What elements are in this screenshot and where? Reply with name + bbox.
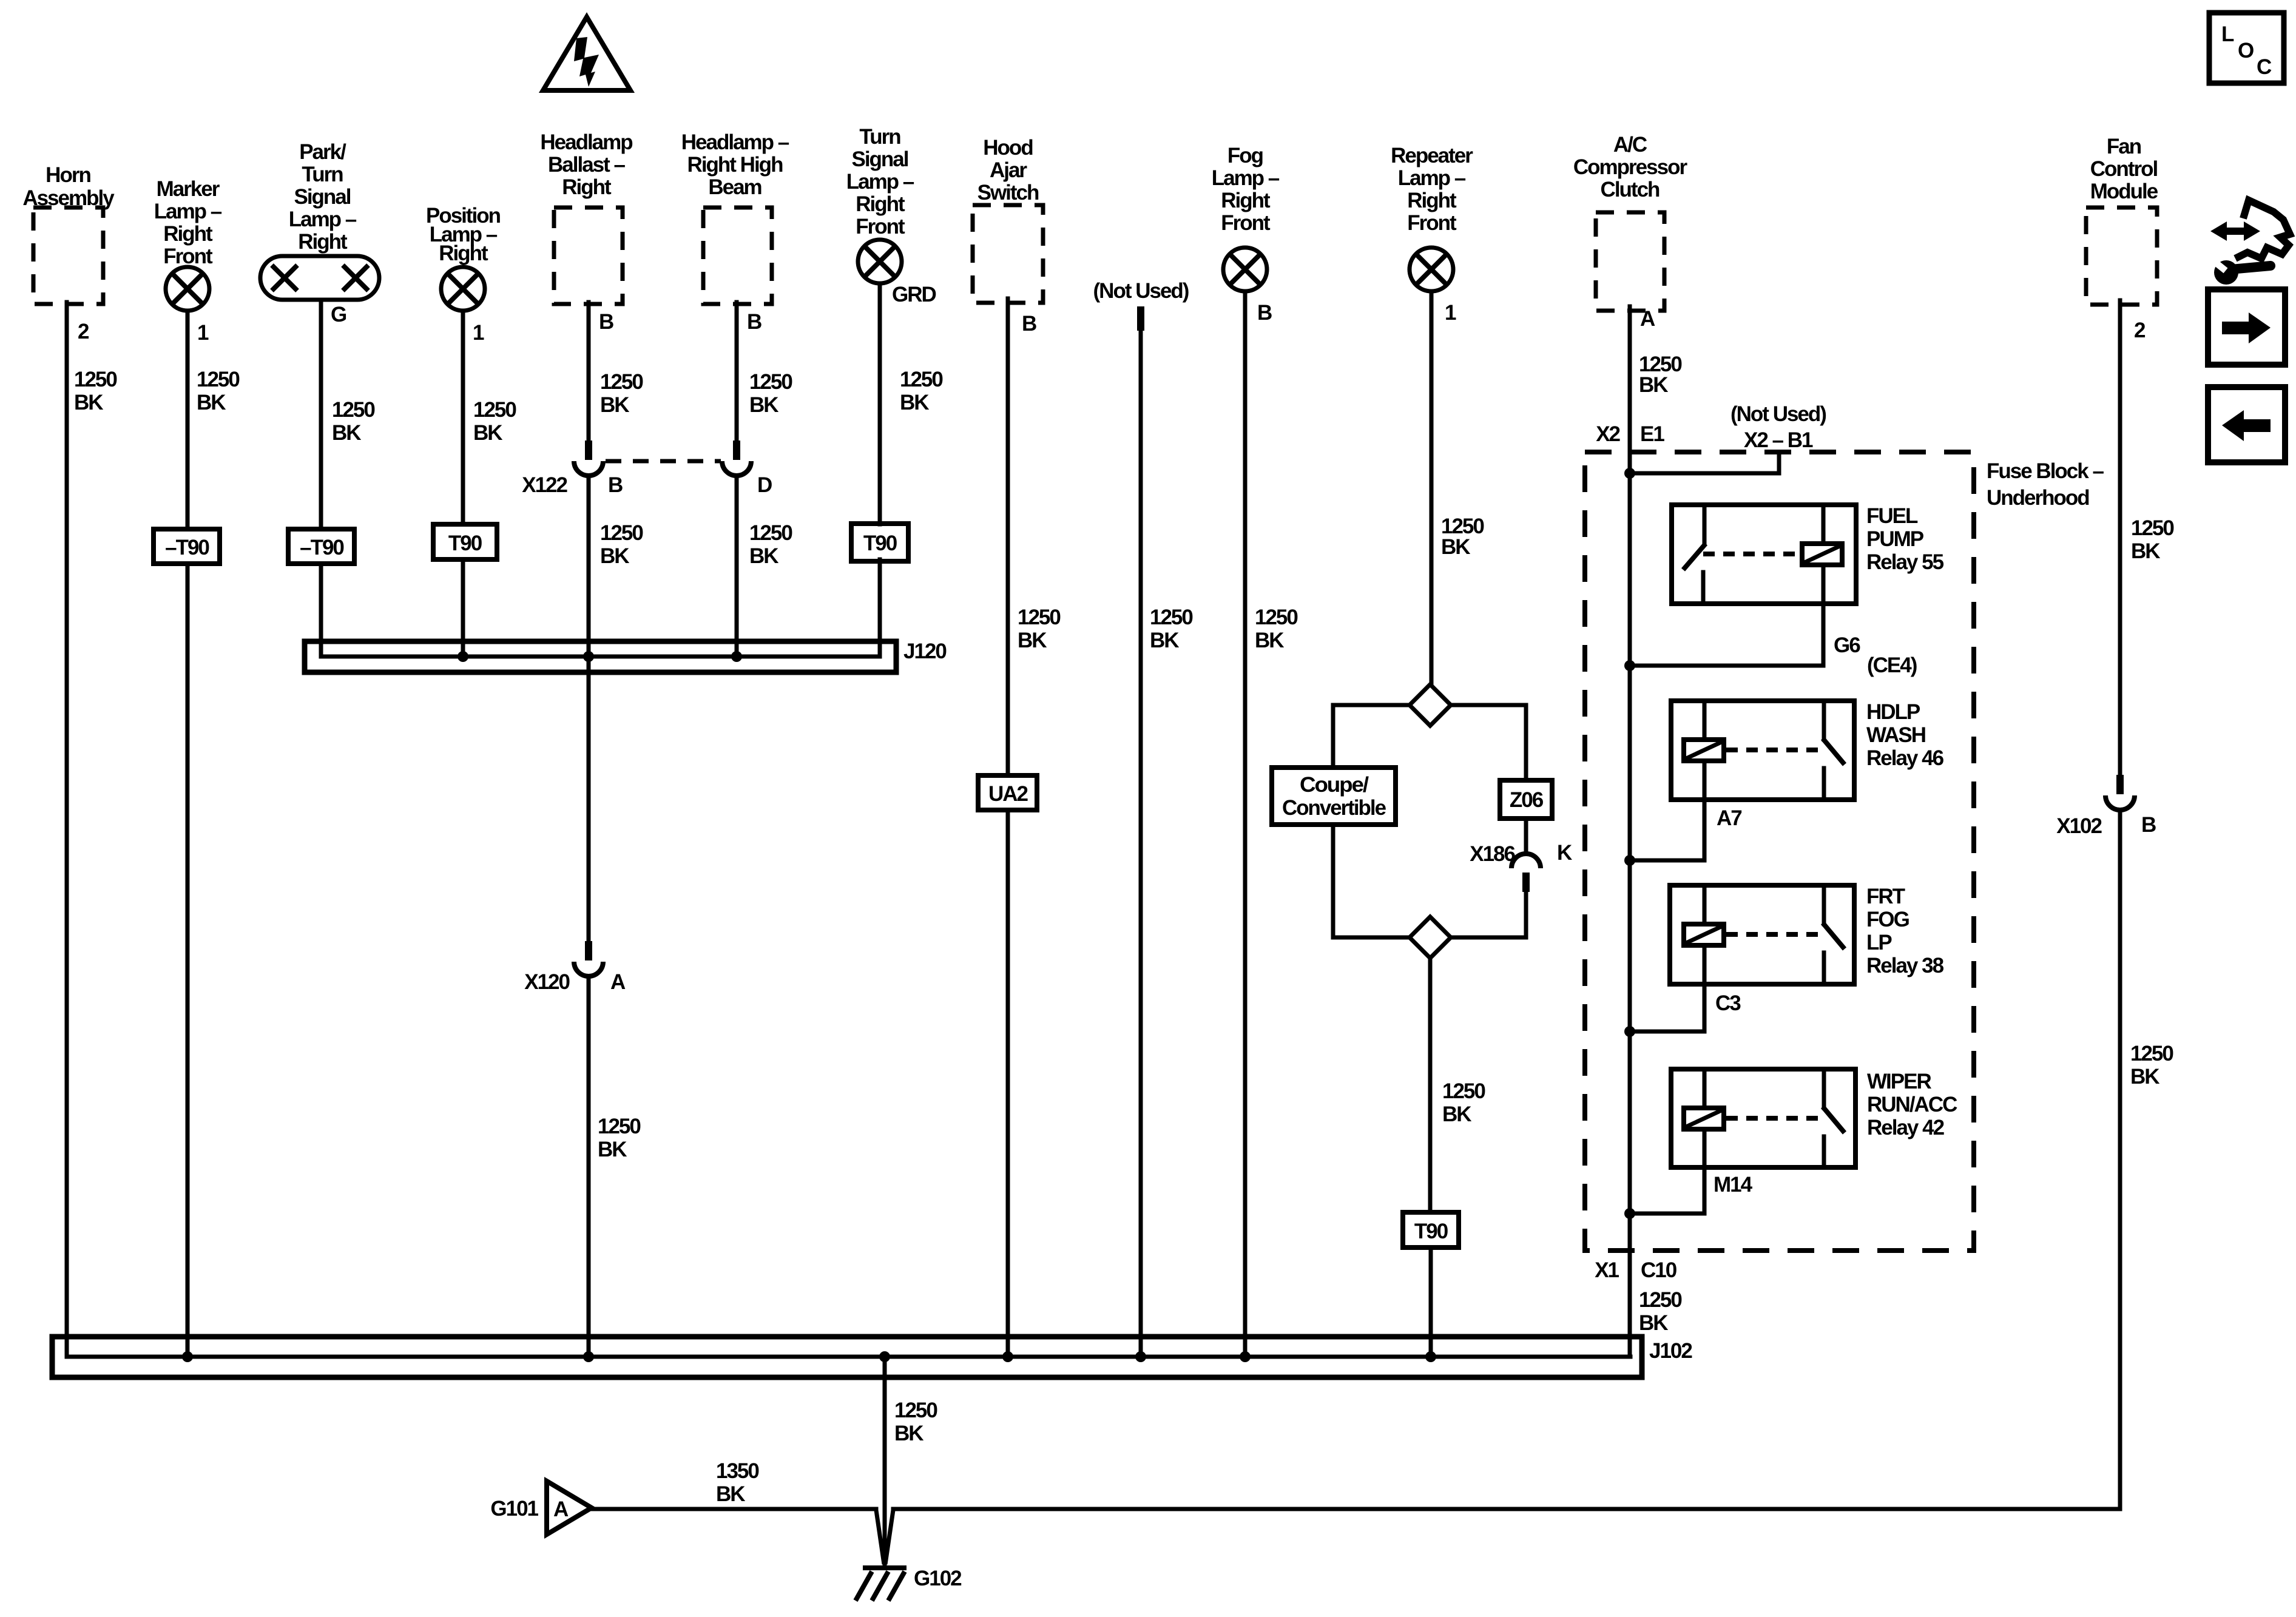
svg-text:B: B bbox=[1257, 301, 1272, 325]
svg-text:1250: 1250 bbox=[1255, 606, 1298, 629]
svg-text:Front: Front bbox=[1407, 211, 1457, 235]
svg-text:(Not Used): (Not Used) bbox=[1730, 402, 1826, 426]
svg-text:BK: BK bbox=[1255, 629, 1284, 652]
label HDLP WASH Relay 46 bbox=[1866, 700, 1944, 770]
junction dot marker at J102 bbox=[182, 1351, 193, 1362]
junction dot C3 bbox=[1624, 1026, 1635, 1037]
svg-text:X1: X1 bbox=[1595, 1258, 1619, 1282]
svg-text:Ajar: Ajar bbox=[990, 158, 1027, 182]
svg-text:BK: BK bbox=[894, 1422, 923, 1445]
repeater lamp right front title bbox=[1391, 144, 1473, 235]
svg-text:B: B bbox=[2141, 813, 2156, 837]
turn signal lamp right front title bbox=[846, 125, 914, 238]
svg-text:X2: X2 bbox=[1596, 422, 1620, 446]
svg-text:BK: BK bbox=[900, 391, 929, 414]
svg-text:Fuse Block –: Fuse Block – bbox=[1987, 459, 2104, 483]
park/turn signal lamp right title bbox=[289, 140, 357, 254]
wire label 1250 BK (high beam upper) bbox=[749, 370, 792, 417]
svg-text:Convertible: Convertible bbox=[1282, 796, 1386, 820]
svg-text:1250: 1250 bbox=[598, 1115, 641, 1138]
svg-text:C3: C3 bbox=[1715, 991, 1741, 1015]
junction dot A7 bbox=[1624, 855, 1635, 866]
svg-text:Right: Right bbox=[1221, 189, 1271, 212]
svg-text:X122: X122 bbox=[522, 473, 567, 497]
splice pack J120 bbox=[305, 641, 896, 672]
svg-text:T90: T90 bbox=[863, 532, 897, 555]
turn signal lamp symbol bbox=[858, 240, 902, 283]
wire label 1250 BK (ballast bottom) bbox=[598, 1115, 641, 1161]
svg-text:A7: A7 bbox=[1717, 806, 1741, 830]
svg-text:Park/: Park/ bbox=[299, 140, 346, 164]
svg-text:Front: Front bbox=[1221, 211, 1271, 235]
svg-text:T90: T90 bbox=[448, 532, 482, 555]
svg-text:Marker: Marker bbox=[157, 177, 220, 201]
svg-text:(Not Used): (Not Used) bbox=[1093, 279, 1189, 303]
svg-text:Fog: Fog bbox=[1227, 144, 1263, 167]
horn assembly component box bbox=[22, 163, 115, 304]
splice box -T90 (marker) bbox=[154, 529, 220, 564]
svg-text:WASH: WASH bbox=[1866, 723, 1925, 747]
svg-text:UA2: UA2 bbox=[988, 782, 1028, 806]
svg-text:E1: E1 bbox=[1640, 422, 1664, 446]
stub wire X2-B1 bbox=[1630, 454, 1779, 473]
relay U42 WIPER RUN/ACC outline bbox=[1671, 1069, 1855, 1167]
svg-text:BK: BK bbox=[74, 391, 103, 414]
wire not used stub to J102 bbox=[1139, 331, 1143, 1357]
wire horn to J102 bbox=[65, 302, 69, 1357]
svg-text:1250: 1250 bbox=[894, 1399, 937, 1422]
label FRT FOG LP Relay 38 bbox=[1866, 885, 1944, 977]
wire repeater lamp to option split bbox=[1430, 291, 1434, 684]
relay U42 switch contact bbox=[1823, 1069, 1845, 1167]
svg-text:BK: BK bbox=[1150, 629, 1179, 652]
option box Coupe/Convertible bbox=[1272, 768, 1396, 825]
splice box T90 (position) bbox=[433, 524, 497, 559]
svg-text:Switch: Switch bbox=[977, 181, 1039, 204]
forward arrow box bbox=[2208, 289, 2285, 365]
svg-text:Relay 55: Relay 55 bbox=[1866, 550, 1944, 574]
wire label 1250 BK (C10) bbox=[1639, 1288, 1682, 1335]
svg-text:Compressor: Compressor bbox=[1573, 155, 1688, 179]
svg-text:BK: BK bbox=[600, 544, 629, 568]
svg-text:–T90: –T90 bbox=[165, 536, 209, 559]
svg-text:Horn: Horn bbox=[46, 163, 90, 187]
svg-text:Signal: Signal bbox=[294, 185, 350, 209]
svg-text:Signal: Signal bbox=[851, 147, 908, 171]
svg-text:2: 2 bbox=[78, 320, 89, 343]
svg-text:D: D bbox=[757, 473, 772, 497]
pin G6 wire to main bbox=[1630, 604, 1823, 666]
relay U46 HDLP WASH outline bbox=[1671, 701, 1854, 800]
svg-text:BK: BK bbox=[332, 421, 361, 445]
option box Z06 bbox=[1500, 780, 1552, 819]
svg-text:X186: X186 bbox=[1470, 842, 1515, 866]
wire fan module to X102 bbox=[2118, 300, 2122, 775]
svg-text:A: A bbox=[1640, 307, 1655, 331]
svg-text:Headlamp –: Headlamp – bbox=[681, 130, 789, 154]
option split diamond upper bbox=[1410, 684, 1451, 726]
ground symbol G102 bbox=[856, 1568, 907, 1601]
svg-text:Relay 46: Relay 46 bbox=[1866, 746, 1944, 770]
svg-text:A: A bbox=[553, 1497, 569, 1521]
A/C compressor clutch title bbox=[1573, 133, 1688, 201]
svg-text:WIPER: WIPER bbox=[1867, 1070, 1931, 1093]
svg-text:Lamp –: Lamp – bbox=[846, 170, 914, 194]
svg-text:Relay 38: Relay 38 bbox=[1866, 954, 1944, 977]
svg-text:Front: Front bbox=[163, 245, 213, 268]
svg-text:1350: 1350 bbox=[716, 1459, 759, 1483]
svg-text:1: 1 bbox=[1445, 301, 1456, 325]
svg-text:C: C bbox=[2257, 55, 2272, 79]
wire park/turn to -T90 bbox=[319, 300, 323, 529]
relay U38 FRT FOG LP outline bbox=[1670, 885, 1854, 984]
svg-text:1250: 1250 bbox=[1442, 1079, 1485, 1103]
wire G101 to ground junction bbox=[592, 1507, 876, 1511]
svg-text:G101: G101 bbox=[490, 1497, 538, 1521]
crimp fork to G102 bbox=[876, 1510, 893, 1564]
svg-text:M14: M14 bbox=[1714, 1173, 1753, 1197]
svg-text:FUEL: FUEL bbox=[1866, 504, 1918, 528]
wire label 1250 BK (fog) bbox=[1255, 606, 1298, 652]
headlamp right high beam title bbox=[681, 130, 789, 199]
splice box T90 (turn signal) bbox=[851, 524, 908, 561]
svg-text:1250: 1250 bbox=[2131, 516, 2174, 540]
svg-text:G: G bbox=[331, 303, 346, 326]
hood ajar switch component box bbox=[973, 205, 1043, 303]
svg-text:Right: Right bbox=[298, 230, 348, 254]
svg-text:1250: 1250 bbox=[473, 398, 516, 422]
svg-text:Z06: Z06 bbox=[1510, 788, 1544, 812]
svg-text:Underhood: Underhood bbox=[1987, 486, 2089, 510]
junction dot position at J120 bbox=[458, 651, 468, 662]
svg-text:Hood: Hood bbox=[983, 136, 1033, 160]
wire label 1250 BK (repeater lower) bbox=[1442, 1079, 1485, 1126]
A/C compressor clutch component box bbox=[1596, 212, 1664, 311]
svg-text:Right: Right bbox=[163, 222, 213, 246]
svg-text:BK: BK bbox=[749, 393, 778, 417]
wire split to Z06 branch bbox=[1451, 705, 1526, 780]
wire turn signal to T90 bbox=[878, 283, 882, 524]
headlamp ballast component box bbox=[554, 208, 623, 304]
repeater lamp symbol bbox=[1410, 248, 1453, 291]
svg-text:1250: 1250 bbox=[74, 368, 117, 391]
splice box T90 (repeater) bbox=[1403, 1212, 1459, 1247]
wire label 1250 BK (ballast upper) bbox=[600, 370, 643, 417]
svg-text:1: 1 bbox=[473, 321, 484, 345]
fan control module title bbox=[2090, 135, 2158, 203]
svg-text:2: 2 bbox=[2134, 319, 2146, 342]
splice box -T90 (park/turn) bbox=[288, 529, 354, 564]
junction dot ballast at J120 bbox=[583, 651, 594, 662]
fog lamp symbol bbox=[1223, 248, 1267, 291]
pin A7 wire to main bbox=[1630, 800, 1704, 860]
wire T90 to J120 right end bbox=[878, 559, 882, 657]
svg-text:BK: BK bbox=[197, 391, 226, 414]
svg-text:T90: T90 bbox=[1414, 1220, 1448, 1243]
svg-text:1250: 1250 bbox=[1018, 606, 1061, 629]
svg-text:BK: BK bbox=[1442, 1102, 1471, 1126]
backward arrow box bbox=[2208, 387, 2285, 462]
wire label 1250 BK (A/C) bbox=[1639, 353, 1682, 397]
svg-text:Right: Right bbox=[439, 241, 488, 265]
svg-text:Right: Right bbox=[856, 192, 905, 216]
svg-text:1250: 1250 bbox=[900, 368, 943, 391]
svg-text:BK: BK bbox=[1018, 629, 1047, 652]
svg-text:–T90: –T90 bbox=[300, 536, 344, 559]
junction dot not used at J102 bbox=[1135, 1351, 1146, 1362]
svg-text:Turn: Turn bbox=[302, 163, 343, 186]
svg-text:BK: BK bbox=[473, 421, 502, 445]
wire label 1250 BK (hood ajar) bbox=[1018, 606, 1061, 652]
wire label 1250 BK (position) bbox=[473, 398, 516, 445]
wire label 1250 BK (high beam lower) bbox=[749, 521, 792, 568]
svg-text:FRT: FRT bbox=[1866, 885, 1905, 908]
wire merge to T90 bbox=[1428, 958, 1433, 1212]
svg-text:BK: BK bbox=[1441, 535, 1470, 559]
svg-text:A/C: A/C bbox=[1613, 133, 1647, 157]
label FUEL PUMP Relay 55 bbox=[1866, 504, 1944, 574]
svg-text:1250: 1250 bbox=[332, 398, 375, 422]
svg-text:G6: G6 bbox=[1834, 633, 1860, 657]
ground G101 triangle bbox=[547, 1481, 592, 1534]
svg-text:Fan: Fan bbox=[2107, 135, 2141, 158]
wire T90 to J120 bbox=[461, 559, 465, 657]
svg-text:BK: BK bbox=[2131, 539, 2160, 563]
relay U38 coil bbox=[1684, 885, 1724, 984]
ground feed wire J102 to G102 bbox=[883, 1357, 887, 1564]
wire label 1250 BK (repeater upper) bbox=[1441, 515, 1484, 559]
svg-text:BK: BK bbox=[1639, 1311, 1668, 1335]
svg-text:BK: BK bbox=[1639, 373, 1668, 397]
svg-text:1250: 1250 bbox=[600, 521, 643, 545]
dashed connector link X122 B to D bbox=[606, 459, 721, 464]
wire -T90 to J120 left end bbox=[319, 564, 323, 657]
svg-text:Right High: Right High bbox=[687, 153, 783, 177]
marker lamp right front title bbox=[154, 177, 222, 268]
svg-text:Repeater: Repeater bbox=[1391, 144, 1473, 167]
svg-text:Coupe/: Coupe/ bbox=[1300, 773, 1369, 797]
svg-text:J120: J120 bbox=[903, 640, 947, 663]
svg-text:Lamp –: Lamp – bbox=[289, 208, 357, 231]
svg-text:Clutch: Clutch bbox=[1601, 178, 1660, 201]
connector X122 terminal B bbox=[574, 441, 603, 476]
svg-text:1250: 1250 bbox=[197, 368, 240, 391]
svg-text:Lamp –: Lamp – bbox=[1212, 166, 1280, 190]
relay U55 switch contact bbox=[1683, 505, 1706, 604]
svg-text:1250: 1250 bbox=[2130, 1042, 2173, 1065]
svg-text:Control: Control bbox=[2090, 157, 2158, 181]
svg-text:B: B bbox=[747, 310, 761, 334]
connector X102 terminal B bbox=[2105, 775, 2135, 810]
junction dot X2-B1 stub bbox=[1624, 468, 1635, 479]
junction dot high beam at J120 bbox=[731, 651, 742, 662]
svg-text:Turn: Turn bbox=[859, 125, 900, 149]
svg-text:L: L bbox=[2221, 22, 2234, 46]
svg-text:Headlamp: Headlamp bbox=[540, 130, 632, 154]
svg-text:Module: Module bbox=[2090, 180, 2158, 203]
svg-text:Relay 42: Relay 42 bbox=[1867, 1116, 1945, 1139]
position lamp right title bbox=[426, 204, 501, 265]
wire label 1250 BK (fan lower) bbox=[2130, 1042, 2173, 1089]
park/turn dual lamp symbol bbox=[260, 256, 379, 300]
option merge diamond lower bbox=[1410, 917, 1451, 958]
wire coupe branch to option merge bbox=[1333, 825, 1410, 937]
pin C3 wire to main bbox=[1630, 984, 1704, 1031]
relay U38 coil link dashed bbox=[1726, 932, 1823, 937]
relay U55 FUEL PUMP outline bbox=[1672, 505, 1856, 604]
wire high beam to connector D bbox=[735, 302, 739, 442]
label WIPER RUN/ACC Relay 42 bbox=[1867, 1070, 1957, 1139]
svg-text:K: K bbox=[1557, 841, 1572, 865]
wire X122 to X120 bbox=[587, 476, 591, 941]
junction dot repeater at J102 bbox=[1425, 1351, 1436, 1362]
relay U38 switch contact bbox=[1823, 885, 1845, 984]
LOC legend box bbox=[2209, 13, 2284, 83]
svg-text:X102: X102 bbox=[2056, 814, 2102, 838]
wire D to J120 bbox=[735, 476, 739, 657]
wire label 1250 BK (ballast lower) bbox=[600, 521, 643, 568]
label (Not Used) X2-B1 bbox=[1730, 402, 1826, 452]
wire X102 to ground run bbox=[893, 810, 2120, 1509]
svg-text:GRD: GRD bbox=[892, 283, 936, 306]
svg-text:Right: Right bbox=[1407, 189, 1457, 212]
junction dot ballast at J102 bbox=[583, 1351, 594, 1362]
wire ballast to X122 bbox=[587, 302, 591, 441]
wire split to coupe branch bbox=[1333, 705, 1410, 768]
junction dot M14 bbox=[1624, 1208, 1635, 1219]
svg-text:1250: 1250 bbox=[749, 521, 792, 545]
svg-text:1250: 1250 bbox=[749, 370, 792, 394]
svg-text:G102: G102 bbox=[914, 1567, 962, 1590]
svg-text:(CE4): (CE4) bbox=[1867, 653, 1917, 677]
wire label 1250 BK (not used) bbox=[1150, 606, 1193, 652]
connector X120 terminal A bbox=[574, 941, 603, 976]
pin M14 wire to main bbox=[1630, 1167, 1704, 1214]
svg-text:1250: 1250 bbox=[600, 370, 643, 394]
wire label 1250 BK (horn) bbox=[74, 368, 117, 414]
junction dot G6 bbox=[1624, 660, 1635, 671]
relay U55 coil bbox=[1802, 505, 1842, 604]
wire label 1250 BK (marker) bbox=[197, 368, 240, 414]
headlamp high beam component box bbox=[703, 208, 772, 304]
svg-text:BK: BK bbox=[600, 393, 629, 417]
svg-text:BK: BK bbox=[749, 544, 778, 568]
svg-text:FOG: FOG bbox=[1866, 908, 1909, 931]
svg-text:O: O bbox=[2238, 39, 2254, 62]
connector terminal D bbox=[722, 441, 751, 476]
hood ajar switch title bbox=[977, 136, 1039, 204]
wire label 1250 BK (fan upper) bbox=[2131, 516, 2174, 563]
wire A/C clutch down fuse block to J102 bbox=[1628, 306, 1632, 1357]
connector X186 terminal K bbox=[1511, 854, 1541, 892]
svg-text:B: B bbox=[608, 473, 623, 497]
wire X186 to option merge bbox=[1451, 892, 1526, 937]
label Fuse Block - Underhood bbox=[1987, 459, 2104, 510]
svg-text:HDLP: HDLP bbox=[1866, 700, 1920, 724]
relay U46 coil link dashed bbox=[1726, 748, 1823, 752]
svg-text:A: A bbox=[610, 970, 626, 994]
svg-text:LP: LP bbox=[1866, 931, 1892, 954]
svg-text:X2 – B1: X2 – B1 bbox=[1744, 428, 1813, 452]
position lamp symbol bbox=[441, 267, 485, 311]
option box UA2 bbox=[978, 775, 1037, 810]
fuse block underhood dashed outline bbox=[1585, 452, 1974, 1251]
svg-text:1250: 1250 bbox=[1150, 606, 1193, 629]
relay U55 coil link dashed bbox=[1703, 552, 1800, 556]
svg-text:Lamp –: Lamp – bbox=[1398, 166, 1466, 190]
fan control module component box bbox=[2086, 208, 2157, 305]
wire position lamp to T90 bbox=[461, 311, 465, 524]
wire fog lamp to J102 bbox=[1243, 291, 1248, 1357]
svg-text:BK: BK bbox=[2130, 1065, 2159, 1089]
relay U42 coil bbox=[1684, 1069, 1724, 1167]
wire X120 to J102 bbox=[587, 976, 591, 1357]
high voltage warning triangle bbox=[543, 17, 630, 90]
wire label 1250 BK (ground feed) bbox=[894, 1399, 937, 1445]
wire label 1350 BK bbox=[716, 1459, 759, 1506]
svg-text:RUN/ACC: RUN/ACC bbox=[1867, 1093, 1957, 1116]
svg-text:J102: J102 bbox=[1649, 1339, 1692, 1363]
svg-text:Right: Right bbox=[562, 175, 612, 199]
wire label 1250 BK (park/turn) bbox=[332, 398, 375, 445]
svg-text:Beam: Beam bbox=[708, 175, 761, 199]
svg-text:B: B bbox=[1022, 312, 1036, 336]
wire -T90 to J102 bbox=[186, 564, 190, 1357]
svg-text:PUMP: PUMP bbox=[1866, 527, 1924, 551]
wire UA2 to J102 bbox=[1006, 810, 1010, 1357]
junction dot fog at J102 bbox=[1240, 1351, 1251, 1362]
svg-text:BK: BK bbox=[598, 1138, 627, 1161]
relay U46 coil bbox=[1684, 701, 1724, 800]
svg-text:1250: 1250 bbox=[1639, 1288, 1682, 1312]
relay U42 coil link dashed bbox=[1726, 1116, 1823, 1121]
fog lamp right front title bbox=[1212, 144, 1280, 235]
svg-text:B: B bbox=[599, 310, 613, 334]
splice pack J102 bbox=[52, 1337, 1642, 1377]
service tool icon (wrench with part outline and double arrow) bbox=[2210, 200, 2290, 285]
junction dot ground feed bbox=[879, 1351, 890, 1362]
svg-text:Ballast –: Ballast – bbox=[548, 153, 625, 177]
svg-text:Front: Front bbox=[856, 215, 905, 238]
relay U46 switch contact bbox=[1823, 701, 1845, 800]
headlamp ballast right title bbox=[540, 130, 632, 199]
svg-text:C10: C10 bbox=[1641, 1258, 1677, 1282]
wire T90 to J102 bbox=[1429, 1247, 1433, 1357]
svg-text:Lamp –: Lamp – bbox=[154, 200, 222, 223]
svg-text:X120: X120 bbox=[524, 970, 570, 994]
wire hood ajar to UA2 bbox=[1006, 299, 1010, 775]
wire label 1250 BK (turn signal) bbox=[900, 368, 943, 414]
wire marker lamp to -T90 bbox=[186, 311, 190, 529]
not used stub terminal bbox=[1137, 306, 1144, 331]
wire Z06 to X186 bbox=[1524, 819, 1528, 852]
svg-text:BK: BK bbox=[716, 1482, 745, 1506]
svg-text:1: 1 bbox=[197, 321, 209, 345]
junction dot hood ajar at J102 bbox=[1002, 1351, 1013, 1362]
marker lamp symbol bbox=[166, 267, 209, 311]
